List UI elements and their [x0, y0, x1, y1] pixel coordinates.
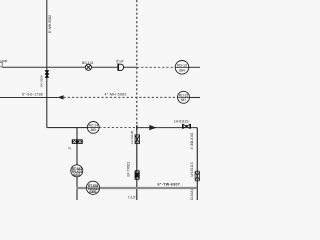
wire: line D solid left — [0, 97, 58, 99]
svg-text:EF-TR621: EF-TR621 — [126, 162, 130, 177]
wire: vertical line 6"-MH-5582 — [46, 0, 48, 128]
svg-text:4"-BD-8181: 4"-BD-8181 — [190, 132, 194, 149]
svg-text:BG-141: BG-141 — [82, 61, 94, 65]
wire: horizontal line B (solid part) — [2, 66, 137, 68]
svg-text:RO-14: RO-14 — [89, 124, 99, 128]
svg-text:6"-MH-5582: 6"-MH-5582 — [48, 15, 52, 33]
svg-text:6301: 6301 — [89, 190, 96, 194]
spec break box — [72, 140, 83, 144]
svg-text:6"-TW-6307: 6"-TW-6307 — [158, 182, 181, 186]
wire: thick line 6"-TW-6307 — [77, 187, 198, 189]
svg-text:885: 885 — [91, 128, 97, 132]
valve upper on x=137 — [135, 135, 140, 144]
svg-text:RO-13: RO-13 — [177, 63, 187, 67]
svg-text:LH-6111S: LH-6111S — [174, 119, 190, 123]
valve BG-141 (circle with X) — [85, 64, 91, 70]
svg-text:RO-15: RO-15 — [179, 93, 189, 97]
valve AA-3106 (filled) — [45, 70, 49, 78]
svg-text:884: 884 — [179, 68, 185, 72]
valve EF-TR621 on x=137 — [135, 171, 140, 180]
instrument circle on x=77 — [71, 165, 83, 177]
arrow right on line C — [149, 125, 156, 130]
svg-text:LH-6111B: LH-6111B — [130, 131, 134, 144]
wire: mid vertical line x=137 below junction — [136, 128, 138, 200]
svg-text:1-1/2": 1-1/2" — [128, 196, 136, 200]
instrument RO-15/887 — [178, 91, 190, 103]
svg-text:4"-BD-8181: 4"-BD-8181 — [190, 189, 194, 200]
svg-text:4"-MH-5982: 4"-MH-5982 — [105, 93, 127, 97]
svg-text:6211: 6211 — [73, 173, 80, 177]
svg-text:Y-6081: Y-6081 — [0, 59, 8, 63]
svg-text:887: 887 — [181, 98, 187, 102]
instrument circle on line C — [87, 122, 99, 134]
wire: line C from corner to circle — [47, 127, 88, 129]
arrow left on line D — [57, 95, 63, 99]
wire: horizontal line B dashed part — [137, 66, 175, 68]
wire: line C dashed — [99, 127, 136, 129]
reducer 6"x4" — [117, 63, 119, 71]
wire: left-mid vertical line x=77 — [76, 128, 78, 200]
svg-text:AA-3106: AA-3106 — [40, 75, 44, 87]
junction tick — [136, 125, 138, 130]
svg-text:6"x4": 6"x4" — [116, 60, 124, 64]
wire: vertical dashed line — [136, 0, 138, 125]
valve on right vertical — [195, 171, 200, 181]
svg-text:6"-SG-1738: 6"-SG-1738 — [22, 93, 43, 97]
wire: line D right stub — [190, 97, 201, 99]
wire: horizontal line B right stub — [189, 66, 200, 68]
wire: line D dashed — [64, 96, 178, 98]
wire: line C solid right — [137, 127, 198, 129]
off-page connector box left — [0, 62, 2, 67]
instrument circle on thick line — [86, 181, 99, 194]
instrument RO-13/884 — [175, 61, 189, 75]
valve LH-6111S — [183, 124, 191, 129]
wire: right vertical line — [196, 128, 198, 200]
svg-text:LH-9111S: LH-9111S — [190, 161, 194, 176]
